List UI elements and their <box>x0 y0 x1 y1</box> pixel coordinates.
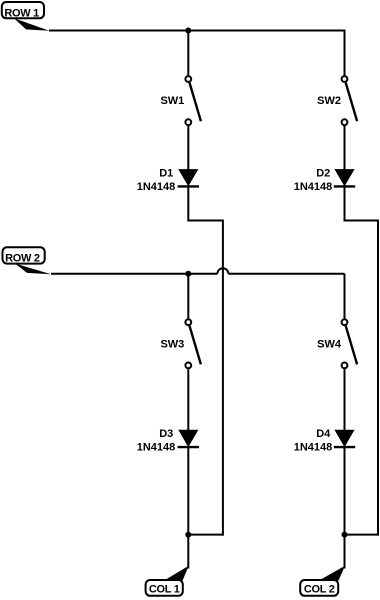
net flag ROW 1 <box>2 2 50 31</box>
wire ROW2 horizontal (with hop gap) <box>51 273 217 275</box>
junction node COL2 <box>342 532 348 538</box>
wire D4 down to COL2 <box>344 447 346 568</box>
junction node ROW1/SW1 <box>185 28 191 34</box>
svg-text:1N4148: 1N4148 <box>137 442 176 454</box>
svg-text:1N4148: 1N4148 <box>137 181 176 193</box>
diode D1 <box>178 170 199 187</box>
svg-text:D2: D2 <box>316 168 330 180</box>
svg-text:D4: D4 <box>316 428 331 440</box>
wire SW2 to D2 <box>344 126 346 171</box>
svg-text:1N4148: 1N4148 <box>294 442 333 454</box>
wire SW1 stem from ROW1 <box>187 31 189 76</box>
wire bypass join to COL1 <box>188 534 223 536</box>
wire SW3 stem from ROW2 <box>187 274 189 319</box>
switch SW3 <box>185 319 200 368</box>
svg-text:ROW 2: ROW 2 <box>5 253 40 265</box>
svg-text:SW1: SW1 <box>160 95 184 107</box>
net flag COL 2 <box>300 566 345 596</box>
wire SW3 to D3 <box>187 369 189 431</box>
svg-text:SW3: SW3 <box>160 338 184 350</box>
wire SW4 to D4 <box>344 369 346 431</box>
svg-text:D3: D3 <box>159 428 173 440</box>
svg-text:SW4: SW4 <box>317 338 342 350</box>
wire ROW1 horizontal <box>49 30 345 32</box>
svg-text:COL 2: COL 2 <box>304 584 335 596</box>
switch SW2 <box>342 76 358 125</box>
junction node COL1 <box>185 532 191 538</box>
wire bypass column left (crosses ROW2 with hop) <box>222 220 224 536</box>
svg-text:D1: D1 <box>159 168 173 180</box>
switch SW4 <box>342 319 358 368</box>
junction node ROW2/SW3 <box>185 271 191 277</box>
switch SW1 <box>185 76 200 125</box>
svg-text:ROW 1: ROW 1 <box>4 7 39 19</box>
wire ROW1 right drop to SW2 <box>344 30 346 76</box>
svg-text:1N4148: 1N4148 <box>294 181 333 193</box>
wire hop over bypass at ROW2 <box>217 268 228 274</box>
diode D2 <box>334 170 355 187</box>
wire bypass column right <box>377 220 379 536</box>
wire bypass join to COL2 <box>345 534 379 536</box>
svg-text:COL 1: COL 1 <box>149 584 180 596</box>
wire SW1 to D1 <box>187 126 189 171</box>
diode D4 <box>334 430 355 447</box>
net flag COL 1 <box>146 566 189 596</box>
wire D1 to bypass column <box>188 186 223 220</box>
wire D3 down to COL1 <box>187 447 189 568</box>
wire SW4 stem from ROW2 <box>344 274 346 319</box>
wire D2 to right bypass column <box>345 186 379 220</box>
svg-text:SW2: SW2 <box>317 95 341 107</box>
diode D3 <box>178 430 199 447</box>
net flag ROW 2 <box>3 247 52 274</box>
